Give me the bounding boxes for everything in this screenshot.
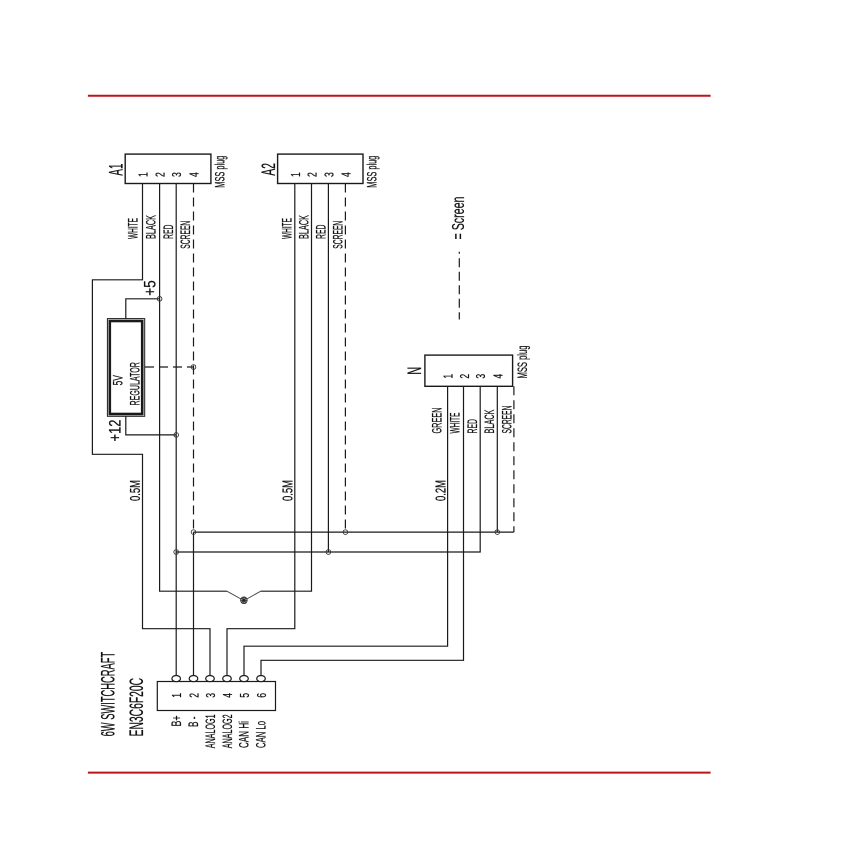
svg-text:1: 1 bbox=[289, 172, 303, 177]
svg-text:SCREEN: SCREEN bbox=[179, 221, 194, 249]
svg-text:3: 3 bbox=[475, 374, 489, 379]
regulator U1 outer case bbox=[107, 319, 144, 417]
svg-text:+5: +5 bbox=[141, 280, 160, 295]
wire regulator +5 output lead bbox=[126, 299, 160, 319]
6W pin socket 5 bbox=[240, 676, 249, 682]
junction +12 node bbox=[174, 433, 179, 438]
wire screen bus drop to 6W pin2 B- bbox=[193, 532, 195, 675]
6W pin socket 6 bbox=[257, 676, 266, 682]
svg-text:1: 1 bbox=[171, 693, 185, 698]
svg-text:ANALOG1: ANALOG1 bbox=[204, 714, 219, 748]
svg-text:1: 1 bbox=[137, 172, 151, 177]
twisted-pair splice chevron bbox=[227, 591, 261, 600]
svg-text:SCREEN: SCREEN bbox=[500, 406, 515, 434]
svg-text:4: 4 bbox=[188, 172, 202, 177]
6W pin socket 4 bbox=[223, 676, 232, 682]
svg-text:GREEN: GREEN bbox=[430, 408, 445, 434]
wire A2 pin1 WHITE down to 6W pin4 ANALOG2 bbox=[227, 184, 295, 676]
svg-text:= Screen: = Screen bbox=[450, 197, 469, 240]
svg-text:B+: B+ bbox=[170, 715, 184, 726]
svg-text:WHITE: WHITE bbox=[126, 218, 141, 239]
junction regulator case to screen bbox=[191, 365, 196, 370]
svg-text:WHITE: WHITE bbox=[280, 218, 295, 239]
wire A1 pin3 RED straight down to 6W pin1 B+ bbox=[175, 184, 177, 676]
top red rule bbox=[88, 95, 711, 97]
svg-text:BLACK: BLACK bbox=[144, 215, 159, 239]
svg-text:1: 1 bbox=[442, 374, 456, 379]
wire N pin4 BLACK drop to screen bus bbox=[496, 386, 498, 532]
wire N screen dashed bbox=[513, 386, 515, 532]
wire N pin1 GREEN to 6W pin5 CAN Hi bbox=[244, 386, 448, 675]
svg-text:6W SWITCHCRAFT: 6W SWITCHCRAFT bbox=[98, 652, 120, 737]
svg-text:2: 2 bbox=[188, 693, 202, 698]
svg-text:5: 5 bbox=[238, 693, 252, 698]
legend screen line sample bbox=[458, 252, 460, 320]
svg-text:2: 2 bbox=[306, 172, 320, 177]
svg-text:4: 4 bbox=[221, 693, 235, 698]
wire A2 pin2 BLACK to twisted splice bbox=[261, 184, 312, 592]
svg-text:SCREEN: SCREEN bbox=[331, 221, 346, 249]
svg-text:WHITE: WHITE bbox=[448, 413, 463, 434]
wire A1 pin4 SCREEN dashed bbox=[193, 184, 195, 533]
6W pin socket 3 bbox=[206, 676, 215, 682]
svg-text:2: 2 bbox=[154, 172, 168, 177]
svg-text:N: N bbox=[405, 367, 426, 375]
svg-text:BLACK: BLACK bbox=[297, 215, 312, 239]
wire screen bus bbox=[194, 531, 514, 533]
svg-text:A1: A1 bbox=[106, 164, 127, 176]
svg-text:ANALOG2: ANALOG2 bbox=[221, 714, 236, 748]
svg-text:RED: RED bbox=[162, 224, 177, 239]
connector A1 box bbox=[125, 154, 211, 183]
svg-text:MSS plug: MSS plug bbox=[213, 156, 228, 188]
svg-text:4: 4 bbox=[492, 374, 506, 379]
junction screen bus at A2 bbox=[343, 530, 348, 535]
wire A2 pin3 RED bbox=[327, 184, 329, 553]
wire N pin3 RED joining +12 bus bbox=[176, 386, 480, 552]
svg-text:2: 2 bbox=[458, 374, 472, 379]
wire A1 pin2 BLACK to twisted splice bbox=[160, 184, 227, 592]
svg-text:B -: B - bbox=[187, 716, 201, 727]
bottom red rule bbox=[88, 772, 711, 774]
svg-text:RED: RED bbox=[466, 419, 481, 434]
splice symbol bbox=[241, 597, 248, 604]
svg-text:0.5M: 0.5M bbox=[279, 480, 296, 501]
wire N pin2 WHITE to 6W pin6 CAN Lo bbox=[261, 386, 464, 675]
svg-text:+12: +12 bbox=[106, 420, 125, 442]
connector 6W Switchcraft box bbox=[157, 682, 275, 711]
svg-text:3: 3 bbox=[171, 172, 185, 177]
wire regulator case to screen dashed bbox=[145, 366, 194, 368]
svg-text:5V: 5V bbox=[112, 375, 126, 386]
wire A2 pin4 SCREEN dashed bbox=[344, 184, 346, 533]
svg-text:CAN Lo: CAN Lo bbox=[255, 721, 270, 748]
junction +12 bus at A1 red bbox=[174, 550, 179, 555]
svg-text:EN3C6F20C: EN3C6F20C bbox=[127, 678, 148, 736]
svg-text:REGULATOR: REGULATOR bbox=[128, 362, 143, 406]
svg-text:CAN Hi: CAN Hi bbox=[238, 721, 253, 748]
svg-text:3: 3 bbox=[323, 172, 337, 177]
svg-text:RED: RED bbox=[314, 224, 329, 239]
connector N box bbox=[425, 355, 513, 386]
svg-text:BLACK: BLACK bbox=[483, 409, 498, 433]
svg-text:MSS plug: MSS plug bbox=[365, 156, 380, 188]
wire regulator +12 input lead bbox=[126, 416, 176, 435]
svg-text:3: 3 bbox=[204, 693, 218, 698]
junction screen bus at N black bbox=[495, 530, 500, 535]
svg-text:MSS plug: MSS plug bbox=[516, 346, 531, 379]
regulator U1 body bbox=[110, 321, 142, 414]
svg-text:0.2M: 0.2M bbox=[432, 480, 449, 501]
6W pin socket 2 bbox=[189, 676, 198, 682]
junction screen bus at A1 bbox=[191, 530, 196, 535]
svg-text:6: 6 bbox=[255, 693, 269, 698]
6W pin socket 1 bbox=[172, 676, 181, 682]
junction +5 node bbox=[157, 297, 162, 302]
svg-text:4: 4 bbox=[340, 172, 354, 177]
connector A2 box bbox=[278, 154, 363, 183]
svg-text:A2: A2 bbox=[259, 163, 280, 176]
svg-text:0.5M: 0.5M bbox=[127, 480, 144, 501]
wire A1 pin1 WHITE routed around regulator down to 6W pin3 ANALOG1 bbox=[92, 184, 210, 676]
junction +12 bus at A2 red bbox=[326, 550, 331, 555]
